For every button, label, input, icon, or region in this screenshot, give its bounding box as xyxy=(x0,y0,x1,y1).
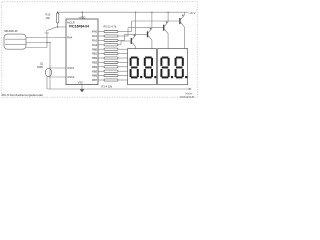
svg-text:RB2: RB2 xyxy=(92,56,98,60)
svg-text:+5 V: +5 V xyxy=(189,11,195,15)
svg-text:RB3: RB3 xyxy=(92,61,98,65)
svg-text:RA2: RA2 xyxy=(92,39,98,43)
svg-text:OSC1: OSC1 xyxy=(67,66,75,70)
svg-text:OSC2: OSC2 xyxy=(67,75,75,79)
svg-text:SFH506-36: SFH506-36 xyxy=(4,29,18,33)
svg-text:4MHz: 4MHz xyxy=(37,66,44,69)
svg-text:10k: 10k xyxy=(46,16,51,20)
svg-text:RA1: RA1 xyxy=(92,34,98,38)
svg-text:RB4: RB4 xyxy=(92,65,98,69)
svg-text:R1-4 10k: R1-4 10k xyxy=(102,84,113,88)
svg-text:PIC16F84-04: PIC16F84-04 xyxy=(69,25,89,29)
svg-text:www.sprut.de: www.sprut.de xyxy=(180,96,195,99)
svg-text:RB5: RB5 xyxy=(92,69,98,73)
svg-text:RA0: RA0 xyxy=(92,30,98,34)
svg-text:RB6: RB6 xyxy=(92,74,98,78)
svg-text:R5-12 4,7k: R5-12 4,7k xyxy=(104,24,117,28)
svg-text:VSS: VSS xyxy=(78,81,83,85)
svg-text:Matze: Matze xyxy=(185,92,193,96)
svg-text:RA4: RA4 xyxy=(67,36,73,40)
svg-text:RB7: RB7 xyxy=(92,78,98,82)
svg-text:RC-5 Fernbedienungsdecoder: RC-5 Fernbedienungsdecoder xyxy=(2,93,44,97)
svg-text:RB1: RB1 xyxy=(92,52,98,56)
svg-text:RB0: RB0 xyxy=(92,47,98,51)
svg-text:RA3: RA3 xyxy=(92,43,98,47)
svg-text:+VDD: +VDD xyxy=(78,15,85,19)
